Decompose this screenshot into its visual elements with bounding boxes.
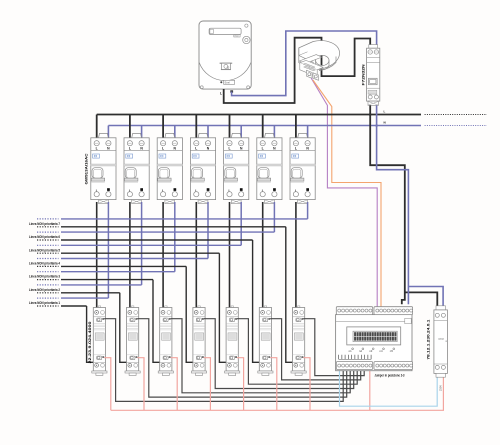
energy meter M1 [199, 21, 251, 95]
svg-text:n4: n4 [380, 349, 384, 353]
wire contactor K7 coil A1 to controller [303, 319, 364, 376]
svg-text:n2: n2 [359, 349, 363, 353]
wire bus L drop to breaker CB5 [229, 115, 231, 141]
wire breaker CB4 N down to line 4 [207, 202, 209, 259]
junction F72 L / bus [369, 113, 372, 116]
svg-text:230V: 230V [439, 385, 443, 391]
svg-text:Linea NON prioritaria 7: Linea NON prioritaria 7 [29, 222, 60, 226]
wire bus L drop to breaker CB3 [162, 115, 164, 141]
breaker CB4 GW913A/16AC [190, 133, 215, 203]
wire breaker CB3 N down to line 3 [174, 202, 176, 272]
wire contactor K4 coil A2 (salmon) [204, 358, 211, 411]
breaker Q1 F72N32N [361, 45, 380, 106]
wire CT violet signal to controller [311, 78, 377, 307]
wire line 2 live to contactor K2 [61, 293, 130, 363]
wire bus L drop to breaker CB4 [195, 115, 197, 141]
contactor K7 22.23.9.024.4000 [291, 306, 306, 376]
wire line 4 neutral [61, 258, 208, 260]
wire breaker CB6 L down to contactor K6 [262, 202, 264, 311]
wire line 3 live to contactor K3 [61, 280, 163, 363]
wire breaker CB6 N down to line 6 [273, 202, 275, 232]
wire line 1 neutral [61, 297, 108, 299]
wire contactor K1 coil A1 to controller [104, 319, 343, 402]
controller U1 (priority load manager) [336, 307, 413, 371]
svg-text:n1: n1 [349, 349, 353, 353]
wire L bus [97, 114, 421, 116]
wire contactor K7 coil A2 (salmon) [303, 358, 310, 411]
wire contactor K4 coil A1 to controller [204, 319, 354, 389]
wire breaker CB5 N down to line 5 [240, 202, 242, 245]
wire line 5 neutral [61, 244, 241, 246]
contactor K5 22.23.9.024.4000 [225, 306, 240, 376]
breaker CB2 GW913A/16AC [124, 133, 149, 203]
svg-text:Jumper in posizione 2-3: Jumper in posizione 2-3 [375, 373, 405, 377]
wire line 3 neutral (dashed tail) [37, 271, 59, 273]
wire F72 N output to bus and controller [377, 105, 409, 304]
wire breaker CB7 L down to contactor K7 [295, 202, 297, 311]
wire line 6 neutral (dashed tail) [37, 231, 59, 233]
wire salmon A2 bus to controller and PSU [111, 369, 444, 410]
wire N bus [108, 125, 421, 127]
svg-text:n5: n5 [390, 349, 394, 353]
wire contactor K2 coil A1 to controller [137, 319, 346, 397]
svg-text:8888: 8888 [438, 337, 444, 341]
svg-text:L: L [384, 110, 386, 114]
wire contactor K2 coil A2 (salmon) [137, 358, 144, 411]
wire L: meter to CT to F72N32N [224, 38, 371, 103]
wire line 7 neutral [61, 218, 308, 220]
wire line 1 live to contactor K1 [61, 306, 96, 362]
wire bus N drop to breaker CB6 [273, 126, 275, 141]
contactor K4 22.23.9.024.4000 [191, 306, 206, 376]
junction F72 N / bus [375, 124, 378, 127]
wire line 6 live to contactor K6 [61, 240, 262, 362]
svg-text:22.23.9.024.4000: 22.23.9.024.4000 [88, 322, 92, 364]
svg-text:L: L [220, 91, 222, 95]
wire contactor K3 coil A2 (salmon) [171, 358, 178, 411]
wire bus L drop to breaker CB1 [96, 115, 98, 141]
svg-text:F72N32N: F72N32N [361, 64, 366, 85]
wire bus N drop to breaker CB3 [174, 126, 176, 141]
wire breaker CB1 N down to line 1 [107, 202, 109, 298]
wire bus N drop to breaker CB4 [207, 126, 209, 141]
breaker CB6 GW913A/16AC [257, 133, 282, 203]
breaker CB1 GW913A/16AC [91, 133, 116, 203]
svg-text:Linea NON prioritaria 3: Linea NON prioritaria 3 [29, 275, 60, 279]
wire line 2 live (dashed tail) [37, 292, 59, 294]
wire contactor K3 coil A1 to controller [171, 319, 351, 393]
wire contactor K5 coil A2 (salmon) [237, 358, 244, 411]
wire breaker CB7 N down to line 7 [307, 202, 309, 219]
wire line 2 neutral [61, 284, 142, 286]
svg-text:Linea NON prioritaria 1: Linea NON prioritaria 1 [29, 301, 60, 305]
breaker CB5 GW913A/16AC [224, 133, 249, 203]
svg-text:Enel: Enel [235, 36, 240, 38]
wire breaker CB4 L down to contactor K4 [195, 202, 197, 311]
wire N: meter to F72N32N [232, 31, 377, 96]
wire line 5 live (dashed tail) [37, 252, 59, 254]
contactor K3 22.23.9.024.4000 [158, 306, 173, 376]
wire 24V light blue controller to PSU [340, 369, 438, 406]
wire L bus dotted continuation [425, 114, 487, 116]
wire bus L drop to breaker CB7 [295, 115, 297, 141]
wire contactor K6 coil A2 (salmon) [270, 358, 277, 411]
breaker CB7 GW913A/16AC [290, 133, 315, 203]
wire breaker CB3 L down to contactor K3 [162, 202, 164, 311]
wire breaker CB2 N down to line 2 [141, 202, 143, 285]
wire N bus dotted continuation [425, 125, 487, 127]
wire line 1 neutral (dashed tail) [37, 297, 59, 299]
wire contactor K5 coil A1 to controller [237, 319, 357, 385]
wire line 3 live (dashed tail) [37, 279, 59, 281]
wire breaker CB2 L down to contactor K2 [129, 202, 131, 311]
power supply PS1 78.12.1.230.24.0.1 [427, 306, 448, 377]
contactor K2 22.23.9.024.4000 [125, 306, 140, 376]
svg-text:N: N [384, 121, 386, 125]
wire bus N drop to breaker CB2 [141, 126, 143, 141]
wire line 5 neutral (dashed tail) [37, 244, 59, 246]
svg-text:Linea NON prioritaria 6: Linea NON prioritaria 6 [29, 235, 60, 239]
current transformer CT1 [299, 41, 340, 81]
wire bus N drop to breaker CB5 [240, 126, 242, 141]
wire CT orange signal to controller [313, 80, 381, 307]
svg-text:n3: n3 [369, 349, 373, 353]
wire line 4 neutral (dashed tail) [37, 258, 59, 260]
wire line 6 live (dashed tail) [37, 239, 59, 241]
wire line 2 neutral (dashed tail) [37, 284, 59, 286]
wire line 3 neutral [61, 271, 175, 273]
wire line 4 live (dashed tail) [37, 265, 59, 267]
wire F72 N branch to PSU [408, 287, 443, 311]
wire line 7 live to contactor K7 [61, 227, 296, 362]
svg-text:78.12.1.230.24.0.1: 78.12.1.230.24.0.1 [427, 320, 431, 360]
wire bus L drop to breaker CB6 [262, 115, 264, 141]
wire breaker CB5 L down to contactor K5 [229, 202, 231, 311]
contactor K6 22.23.9.024.4000 [258, 306, 273, 376]
wire line 5 live to contactor K5 [61, 253, 229, 362]
wire bus L drop to breaker CB2 [129, 115, 131, 141]
wire line 4 live to contactor K4 [61, 266, 196, 362]
breaker CB3 GW913A/16AC [157, 133, 182, 203]
wire line 7 live (dashed tail) [37, 226, 59, 228]
wire breaker CB1 L down to contactor K1 [96, 202, 98, 311]
wire line 1 live (dashed tail) [37, 305, 59, 307]
svg-text:Linea NON prioritaria 2: Linea NON prioritaria 2 [29, 288, 60, 292]
svg-text:Enel: Enel [225, 81, 231, 85]
wire F72 L branch to PSU [405, 292, 438, 310]
wire bus N drop to breaker CB7 [307, 126, 309, 141]
contactor K1 22.23.9.024.4000 [92, 306, 107, 376]
wire contactor K1 coil A2 (salmon) [104, 358, 111, 411]
svg-text:Linea NON prioritaria 5: Linea NON prioritaria 5 [29, 248, 60, 252]
svg-text:Linea NON prioritaria 4: Linea NON prioritaria 4 [29, 262, 60, 266]
wire line 7 neutral (dashed tail) [37, 218, 59, 220]
wire contactor K6 coil A1 to controller [270, 319, 361, 380]
wire F72 L output to bus and controller [370, 105, 405, 304]
wire line 6 neutral [61, 231, 274, 233]
svg-text:GW913A/16AC: GW913A/16AC [84, 153, 88, 184]
wire bus N drop to breaker CB1 [107, 126, 109, 141]
